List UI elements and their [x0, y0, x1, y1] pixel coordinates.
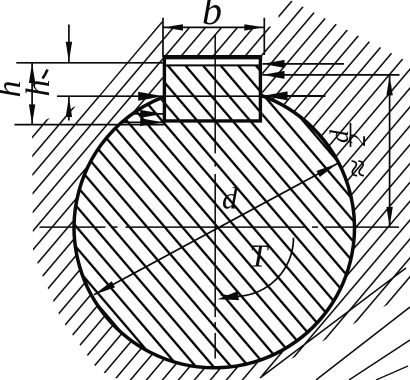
d/2 dimension line [389, 75, 391, 227]
hub keyway bottom (thick top line) [163, 55, 262, 59]
extension line top of key (h) [16, 62, 163, 64]
svg-text:d: d [222, 181, 238, 216]
d/2 arrow down [386, 207, 392, 227]
b extension line left [162, 18, 164, 57]
dimension h' arrow up [66, 97, 72, 117]
d arrow upper right [317, 164, 338, 178]
pressure arrow right flank 3 [263, 95, 326, 97]
torque T arc [221, 238, 294, 297]
pressure arrow left flank 3 [122, 121, 163, 123]
key top line [165, 64, 261, 66]
shaft surface line through key [57, 95, 325, 97]
hub outer edge fan line 3 [349, 340, 410, 380]
white zone around b dimension label [162, 0, 279, 27]
dimension h arrow up [29, 63, 35, 83]
pressure arrow left flank 2 [133, 113, 164, 115]
dimension h' upper line [68, 25, 70, 63]
horizontal centerline [40, 226, 400, 228]
pressure arrow right flank 2 / d2 extension [263, 74, 400, 76]
d arrow lower left [94, 281, 115, 295]
pressure arrow left flank 1 [138, 92, 163, 101]
vertical centerline [214, 34, 216, 359]
d/2 arrow up [386, 75, 392, 95]
shaft section (circle interior) [74, 87, 354, 367]
key area blank (clearance gap band) [163, 55, 262, 122]
dimension b arrow right [244, 24, 264, 30]
extension line bottom of key (h) [15, 124, 165, 126]
label h' [20, 80, 57, 97]
dimension h' arrow down [66, 42, 72, 62]
label h prime tick [43, 70, 48, 79]
shaft hatch edge line bottom-left [95, 301, 124, 335]
svg-text:2: 2 [345, 134, 371, 146]
svg-text:h: h [20, 80, 57, 97]
key section hatch [165, 65, 261, 120]
hub outer edge fan line 2 [316, 307, 410, 380]
shaft circle outline with keyway gap [74, 95, 354, 368]
svg-text:≈: ≈ [340, 159, 377, 178]
hub outer edge fan line 1 [260, 268, 406, 378]
b extension line right [263, 18, 265, 55]
pressure arrow right flank 1 [263, 63, 345, 65]
dimension b line [163, 26, 264, 28]
svg-text:T: T [250, 238, 270, 274]
diameter d line [94, 164, 338, 295]
label h [0, 81, 28, 98]
svg-text:b: b [202, 0, 222, 33]
T arrow [218, 291, 240, 300]
key outline [164, 57, 260, 121]
dimension h' lower line [68, 96, 70, 120]
hub outer edge fan line 4 [376, 366, 408, 380]
dimension h arrow down [29, 104, 35, 124]
dimension b arrow left [163, 24, 183, 30]
label approx d/2 [325, 123, 377, 178]
dimension h line [31, 63, 33, 125]
